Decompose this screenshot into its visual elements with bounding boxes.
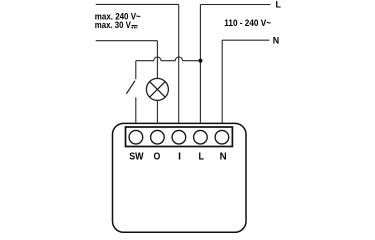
wire: SW terminal riser (135, 97, 137, 122)
svg-text:max. 30 V: max. 30 V (95, 20, 131, 30)
svg-text:N: N (220, 152, 227, 163)
wire: O terminal riser upper (156, 41, 158, 79)
node: junction of switch branch on L riser (199, 59, 203, 63)
lamp E1 (146, 78, 168, 100)
wire: N terminal riser (221, 40, 223, 123)
svg-text:SW: SW (129, 152, 144, 163)
svg-text:L: L (199, 152, 205, 163)
symbol: DC (solid over dashed bar) (132, 26, 138, 28)
svg-text:110 - 240 V~: 110 - 240 V~ (224, 18, 271, 28)
svg-text:O: O (154, 152, 161, 163)
terminal I (172, 130, 186, 144)
device: Shelly relay body (113, 123, 247, 232)
wire: O terminal riser lower (156, 100, 158, 122)
wire: load-circuit lower line (max 30 V) (96, 40, 158, 42)
switch S1 blade (126, 81, 135, 94)
svg-text:N: N (273, 35, 279, 45)
wire: I terminal riser (178, 4, 180, 122)
wire: L feed horizontal (200, 4, 270, 6)
wire: switch branch with crossover hops (136, 57, 201, 61)
wire: switch top lead (135, 61, 137, 79)
svg-text:L: L (276, 0, 282, 10)
svg-text:I: I (178, 152, 181, 163)
wire: L terminal riser (199, 5, 201, 123)
terminal O (151, 130, 165, 144)
terminal SW (129, 130, 143, 144)
terminal N (215, 130, 229, 144)
terminal block (126, 127, 233, 147)
wire: load-circuit top line (max 240 V) (96, 3, 179, 5)
wire: N feed horizontal (222, 39, 269, 41)
terminal L (194, 130, 208, 144)
